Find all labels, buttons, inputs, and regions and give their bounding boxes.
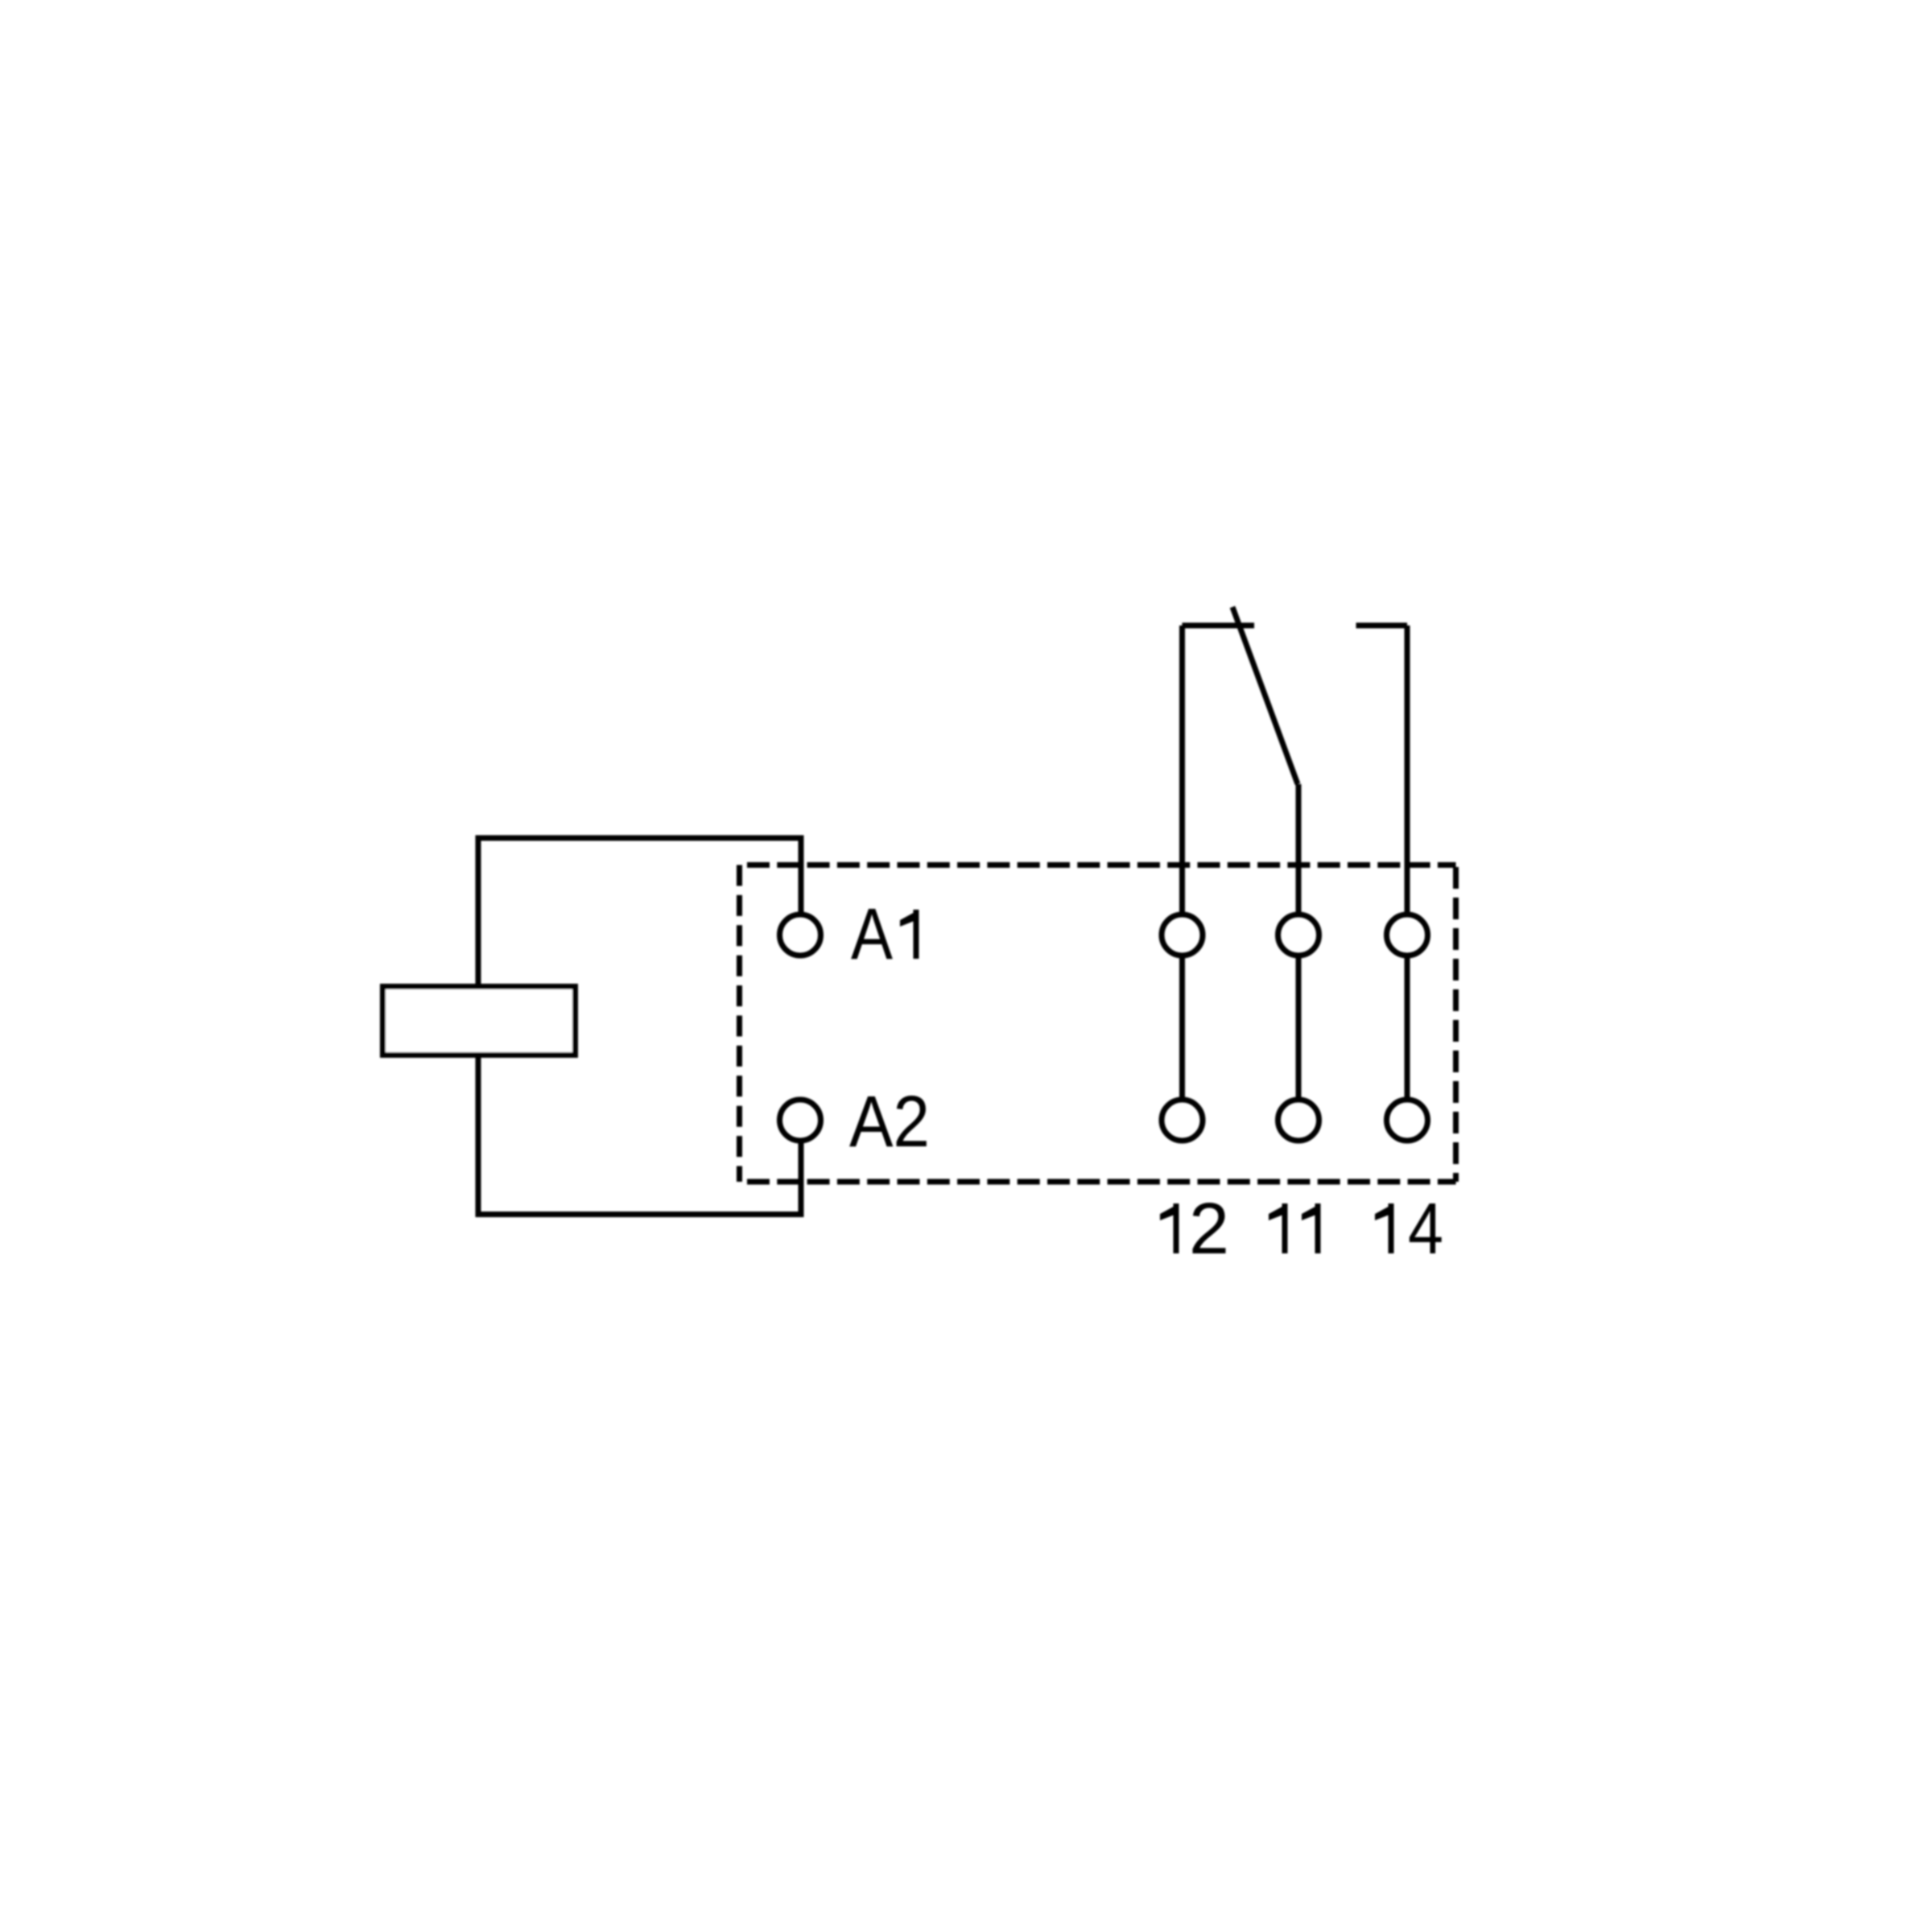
svg-text:2: 2 [1189, 1189, 1229, 1269]
svg-text:4: 4 [1408, 1189, 1443, 1269]
svg-text:A2: A2 [849, 1082, 930, 1162]
svg-text:A: A [851, 894, 893, 975]
